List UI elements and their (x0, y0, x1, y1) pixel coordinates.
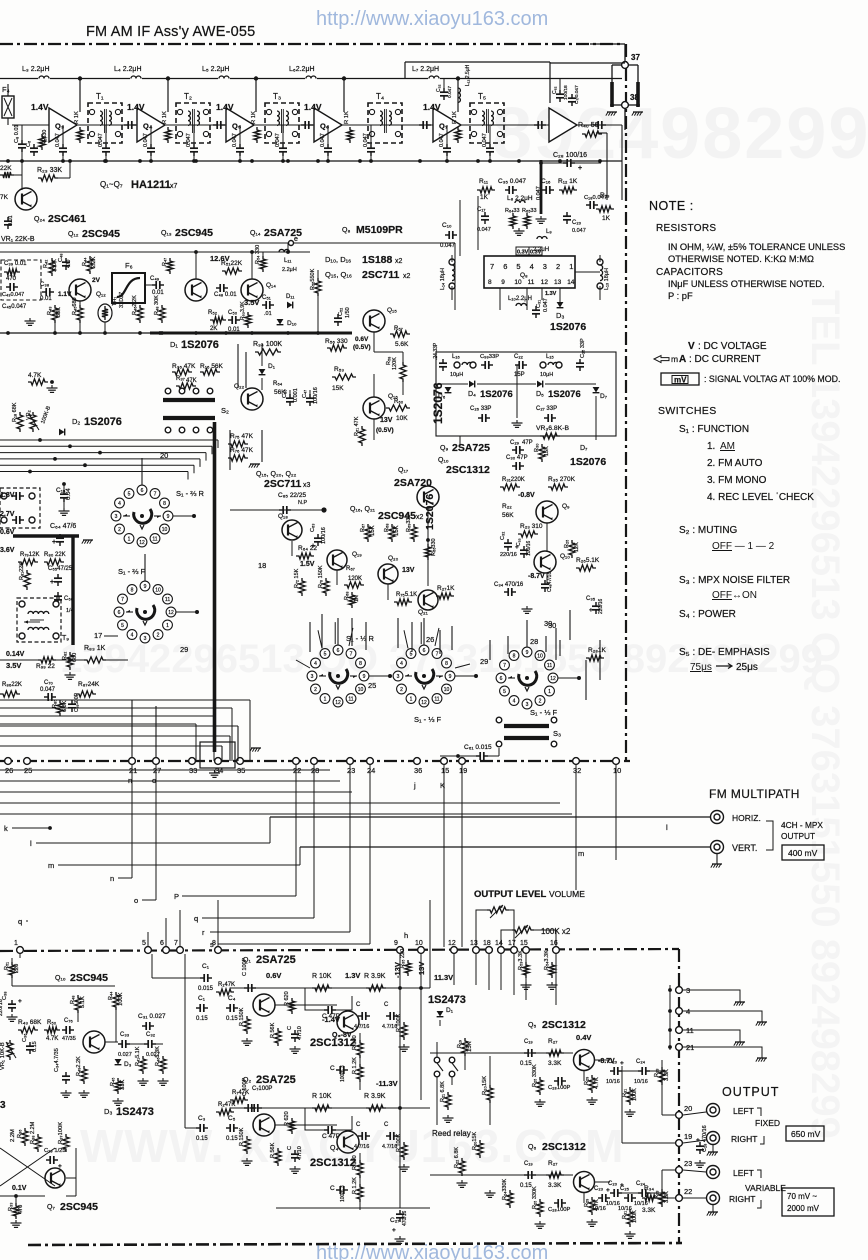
svg-text:470/16: 470/16 (402, 1210, 408, 1226)
terminal 28 (311, 758, 318, 765)
label 21 vert riser (131, 700, 133, 757)
svg-text:C₄₈: C₄₈ (58, 254, 64, 263)
node (398, 986, 402, 990)
svg-text:R 150: R 150 (352, 1035, 358, 1050)
svg-text:10: 10 (444, 687, 450, 693)
resistor R 330K (537, 1077, 543, 1095)
svg-text:R 3.9K: R 3.9K (364, 973, 386, 980)
wire rail (0, 659, 38, 661)
svg-text:Q₁₀: Q₁₀ (55, 975, 66, 982)
svg-text:Q₂₁: Q₂₁ (418, 609, 429, 616)
resistor R33 470 (13, 1203, 19, 1219)
resistor R30 15K (539, 444, 545, 462)
ceramic filter box (0, 488, 40, 528)
svg-text:R₁₂ 1K: R₁₂ 1K (558, 178, 578, 185)
svg-text:11: 11 (348, 697, 353, 703)
node (456, 754, 460, 758)
wire top LC rail (0, 78, 622, 80)
wire 38 joins (612, 104, 622, 106)
svg-text:0.3V: 0.3V (530, 250, 542, 256)
terminal 13 (473, 947, 480, 954)
svg-text:0.047: 0.047 (363, 133, 369, 147)
ground (403, 1044, 405, 1047)
svg-text:D₁: D₁ (268, 363, 276, 370)
svg-text:100K-B: 100K-B (40, 405, 52, 425)
transistor Q14 (241, 279, 263, 301)
svg-text:3.5V: 3.5V (244, 298, 259, 307)
transistor Q22 (241, 388, 263, 410)
terminal 4 (676, 1008, 683, 1015)
svg-text:C₃₃: C₃₃ (120, 1032, 130, 1038)
svg-text:R₄₀ 56: R₄₀ 56 (578, 122, 599, 129)
wire o (155, 765, 157, 900)
svg-text:C₇₇0.047: C₇₇0.047 (574, 85, 580, 104)
svg-text:0.047: 0.047 (536, 186, 542, 200)
svg-text:q: q (18, 917, 22, 926)
svg-text:Q₉: Q₉ (562, 503, 570, 510)
wire box top (405, 61, 550, 63)
contact (193, 427, 199, 433)
svg-text:0.01: 0.01 (40, 296, 52, 302)
svg-text:R₂₆5.1K: R₂₆5.1K (576, 557, 600, 564)
note box (454, 243, 456, 310)
svg-text:F₆: F₆ (125, 261, 133, 270)
svg-text:R₁₈ 68K: R₁₈ 68K (12, 402, 18, 422)
svg-text:2000 mV: 2000 mV (787, 1204, 820, 1213)
svg-text:R₄₈ 30K: R₄₈ 30K (154, 295, 160, 315)
svg-text:-1.4V: -1.4V (322, 1015, 340, 1024)
svg-text:D₇: D₇ (600, 393, 607, 400)
terminal 7 (177, 947, 184, 954)
svg-text:100/16: 100/16 (313, 387, 319, 404)
contact (19, 633, 25, 639)
wire bus right bottom (453, 954, 455, 985)
svg-text:100/6.3: 100/6.3 (340, 1065, 346, 1082)
jack VERT (711, 841, 724, 854)
svg-text:1: 1 (410, 697, 413, 703)
svg-text:R 100K: R 100K (396, 1133, 402, 1152)
terminal 3 (676, 987, 683, 994)
svg-text:R₂₃ 33K: R₂₃ 33K (37, 167, 62, 174)
wire (239, 125, 241, 144)
svg-text:13V: 13V (402, 567, 415, 574)
wire h down (429, 947, 431, 988)
wire 17 (104, 635, 118, 637)
svg-text:L₄ 2.2μH: L₄ 2.2μH (114, 66, 142, 73)
svg-text:19: 19 (684, 1132, 692, 1141)
svg-text:FM AM IF Ass'y AWE-055: FM AM IF Ass'y AWE-055 (86, 24, 255, 40)
svg-text:0.15: 0.15 (226, 1016, 238, 1022)
terminal 21 (676, 1044, 683, 1051)
svg-text:C₄₈ 0.01: C₄₈ 0.01 (214, 292, 237, 298)
resistor 47K top (28, 379, 48, 385)
terminal 22 (293, 758, 300, 765)
svg-text:20: 20 (684, 1104, 692, 1113)
svg-text:R₅₀: R₅₀ (47, 1020, 57, 1026)
resistor R13 1K (596, 206, 614, 212)
resistor R57 5.6K (390, 331, 410, 337)
terminal 26 (5, 758, 12, 765)
resistor R55 550K (315, 278, 321, 296)
svg-text:0.015: 0.015 (198, 986, 214, 992)
svg-text:VERT.: VERT. (732, 843, 757, 853)
svg-text:26: 26 (426, 635, 434, 644)
svg-text:LEFT: LEFT (733, 1168, 754, 1178)
resistor R99 22 (38, 657, 56, 663)
svg-text:A: A (679, 354, 686, 365)
svg-text:(0.5V): (0.5V) (376, 427, 394, 434)
svg-text:10: 10 (162, 527, 168, 533)
svg-text:R 150: R 150 (352, 1155, 358, 1170)
contact (53, 633, 59, 639)
svg-text:3: 3 (526, 702, 529, 708)
ground (526, 606, 528, 609)
svg-text:9: 9 (144, 584, 147, 590)
svg-text:11: 11 (165, 597, 170, 603)
svg-text:10: 10 (613, 766, 621, 775)
svg-text:100K: 100K (632, 1088, 638, 1101)
svg-text:10/16: 10/16 (618, 1206, 632, 1212)
resistor R 150 (357, 1040, 363, 1058)
svg-text:100K: 100K (632, 1210, 638, 1223)
wire vertical 9 (399, 954, 401, 1208)
svg-text:VR₂: VR₂ (26, 410, 32, 420)
svg-text:R₁47K: R₁47K (218, 982, 235, 988)
board border bottom (28, 1243, 682, 1245)
svg-text:1.4V: 1.4V (304, 102, 322, 112)
svg-text:RIGHT: RIGHT (729, 1194, 755, 1204)
svg-text:R 1K: R 1K (344, 111, 350, 124)
svg-text:R₂47K: R₂47K (218, 1102, 235, 1108)
resistor R56 330 (327, 345, 347, 351)
coil T9 a (28, 611, 49, 614)
svg-text:29: 29 (480, 657, 488, 666)
node top rail (166, 76, 170, 80)
svg-text:4.7K: 4.7K (28, 372, 42, 379)
board border terminal row 1 (0, 760, 630, 762)
svg-text:C₁: C₁ (202, 963, 210, 970)
wire (446, 125, 448, 144)
terminal 11 (676, 1027, 683, 1034)
resistor R65 33 (524, 213, 530, 229)
svg-text:R₈₃ 1K: R₈₃ 1K (84, 645, 106, 652)
svg-text:2: 2 (314, 687, 317, 693)
svg-text:C₃₄ 470/16: C₃₄ 470/16 (494, 582, 524, 588)
capacitor C17 0.047 (484, 212, 486, 216)
capacitor filter (12, 495, 16, 497)
svg-text:100/16: 100/16 (321, 527, 327, 544)
svg-text:47P: 47P (522, 440, 533, 446)
wire 10 down (615, 765, 617, 860)
terminal 6 (163, 947, 170, 954)
jack right fixed (707, 1132, 720, 1145)
loop wire (305, 1108, 324, 1130)
svg-text:12: 12 (448, 940, 456, 947)
resistor R22b 6.8K (459, 1158, 465, 1176)
svg-text:C₂₈ 470/16: C₂₈ 470/16 (702, 1125, 708, 1152)
svg-text:38: 38 (630, 93, 639, 102)
svg-text:0.15: 0.15 (520, 1061, 532, 1067)
svg-text:R 1K: R 1K (251, 111, 257, 124)
wire n (131, 765, 133, 878)
inductor L12 2.5uH (458, 88, 460, 102)
svg-text:R₈₀ 22K: R₈₀ 22K (44, 552, 66, 558)
svg-text:17: 17 (94, 631, 102, 640)
svg-text:o: o (134, 896, 138, 905)
ground (83, 1090, 85, 1093)
node (53, 331, 57, 335)
capacitor CP3 (105, 144, 107, 148)
wire (596, 132, 607, 134)
resistor R9 1K (347, 127, 353, 143)
svg-text:1: 1 (324, 697, 327, 703)
svg-text:R 56K: R 56K (270, 1022, 276, 1038)
svg-text:2SC945: 2SC945 (70, 972, 108, 984)
svg-text:12: 12 (541, 279, 549, 286)
capacitor coupling (594, 124, 598, 126)
svg-text:1.8V: 1.8V (0, 492, 15, 499)
resistor R 3.3K out (659, 1067, 665, 1085)
svg-text:C₃₅ 0.047: C₃₅ 0.047 (498, 178, 526, 185)
svg-text:9: 9 (449, 674, 452, 680)
svg-text:: SIGNAL VOLTAG AT 100% MOD.: : SIGNAL VOLTAG AT 100% MOD. (704, 374, 840, 384)
terminal 37 (622, 62, 629, 69)
svg-text:23: 23 (347, 766, 355, 775)
terminal 17 (511, 947, 518, 954)
resistor R52 2K (210, 317, 226, 323)
resistor R40 56 (582, 131, 602, 137)
box 650mV (786, 1126, 824, 1141)
svg-text:Q₁₈: Q₁₈ (278, 513, 288, 520)
svg-text:x2: x2 (403, 273, 411, 280)
resistor R46 2.2K (137, 305, 143, 323)
transistor Q13 (185, 279, 207, 301)
capacitor C52 1/50 (337, 314, 339, 318)
svg-text:5.6K: 5.6K (395, 341, 409, 348)
svg-text:Q₂₂: Q₂₂ (234, 383, 245, 390)
capacitor C39 0.01 block (1, 260, 41, 300)
svg-text:C₃₈: C₃₈ (40, 282, 50, 288)
ground (591, 1219, 593, 1222)
resistor R 100K (401, 1022, 407, 1040)
capacitor C6 (33, 144, 35, 148)
terminal 1 (17, 947, 24, 954)
svg-text:1: 1 (569, 262, 573, 271)
wire (575, 271, 600, 273)
rotary switch S1-2/3F (137, 605, 155, 619)
wire stage (275, 1004, 337, 1006)
arrow T9 (24, 621, 40, 623)
svg-text:0.047: 0.047 (143, 133, 149, 147)
svg-text:: DC VOLTAGE: : DC VOLTAGE (698, 341, 767, 352)
resistor R68 15K (389, 524, 395, 542)
svg-text:R₃₁: R₃₁ (622, 1089, 628, 1097)
svg-text:47/10: 47/10 (297, 1026, 303, 1040)
svg-text:470: 470 (18, 1205, 24, 1214)
svg-text:T₃: T₃ (273, 92, 281, 101)
svg-text:R 1.2K: R 1.2K (352, 1057, 358, 1074)
separator line (0, 242, 455, 244)
transistor Q5 (574, 1050, 595, 1071)
svg-text:11: 11 (547, 663, 552, 669)
svg-text:R 620: R 620 (284, 991, 290, 1006)
op-amp Q&#8323; HA1211 stage (49, 108, 77, 142)
ground (518, 228, 520, 231)
svg-text:x2: x2 (395, 258, 403, 265)
svg-text:R₃₁220K: R₃₁220K (502, 477, 525, 483)
resistor R26b 15K (477, 1140, 483, 1158)
capacitor C19 0.04 (63, 490, 65, 494)
svg-text:2.2μH: 2.2μH (282, 267, 297, 273)
wire lower rail (0, 160, 622, 162)
svg-text:1.5V: 1.5V (300, 561, 315, 568)
svg-text:12: 12 (139, 540, 145, 546)
svg-text:100/16: 100/16 (526, 540, 532, 556)
wire (21, 125, 23, 140)
transistor Q7b (45, 1168, 65, 1188)
ground (246, 1038, 248, 1041)
pot volume 2 (512, 927, 534, 933)
svg-text:C₅₀: C₅₀ (228, 310, 238, 316)
svg-text:R₄₁5.1K: R₄₁5.1K (135, 1046, 141, 1066)
svg-text:6: 6 (141, 488, 144, 494)
svg-text:L₁₁: L₁₁ (284, 258, 291, 264)
terminal 35 (237, 758, 244, 765)
capacitor C63 100/16 (317, 534, 319, 538)
svg-text:Reed relay: Reed relay (432, 1129, 471, 1138)
svg-text:10μH: 10μH (450, 372, 463, 378)
ground 35 (251, 747, 261, 749)
inductor L13 18uH (597, 259, 603, 265)
terminal 19 (459, 758, 466, 765)
transistor Q24 2SC461 (15, 188, 37, 210)
wire Q15 Q16 block (261, 343, 263, 366)
contact (551, 741, 557, 747)
svg-text:15K: 15K (332, 385, 344, 392)
svg-text:47/35: 47/35 (62, 1036, 76, 1042)
svg-text:2SC711: 2SC711 (264, 478, 302, 490)
svg-text:8: 8 (131, 587, 134, 593)
svg-text:Q₁₅, Q₁₆: Q₁₅, Q₁₆ (325, 270, 352, 279)
svg-text:R₅₁22K: R₅₁22K (221, 260, 243, 267)
svg-text:2SC1312: 2SC1312 (310, 1157, 356, 1169)
node top rail (254, 76, 258, 80)
ground 34 (214, 770, 216, 773)
svg-text:0.01: 0.01 (228, 327, 240, 333)
svg-text:7: 7 (154, 491, 157, 497)
svg-text:2SC461: 2SC461 (48, 213, 86, 225)
svg-text:R₄₄: R₄₄ (108, 991, 114, 1000)
wire cluster links (370, 675, 392, 677)
node (14, 1194, 18, 1198)
svg-text:S₃ : MPX NOISE FILTER: S₃ : MPX NOISE FILTER (679, 575, 790, 586)
contact (496, 741, 502, 747)
svg-text:L₇ 2.2μH: L₇ 2.2μH (412, 66, 439, 73)
svg-text:15P: 15P (514, 372, 525, 378)
diode D3b (115, 1059, 122, 1065)
svg-text:2: 2 (400, 687, 403, 693)
svg-text:x3: x3 (303, 482, 311, 489)
svg-text:R₆₉330: R₆₉330 (406, 514, 412, 532)
svg-text:R₅₄ 330: R₅₄ 330 (255, 245, 261, 264)
svg-text:24: 24 (367, 766, 375, 775)
wire long 5 (0, 813, 572, 815)
svg-text:C₂₇ 33P: C₂₇ 33P (536, 406, 557, 412)
svg-text:Q₆: Q₆ (528, 1144, 536, 1151)
svg-text:8: 8 (445, 661, 448, 667)
svg-text:D₅: D₅ (536, 391, 544, 398)
svg-text:5: 5 (128, 491, 131, 497)
svg-text:R₆₀: R₆₀ (394, 399, 404, 405)
svg-text:j: j (413, 781, 416, 790)
svg-text:120K: 120K (392, 357, 398, 370)
wire out stage (536, 1174, 546, 1176)
terminal 14 (498, 947, 505, 954)
resistor R 4.7K (589, 1075, 595, 1093)
node (61, 159, 65, 163)
svg-text:(0.5V): (0.5V) (353, 344, 371, 351)
resistor R64 33 (510, 213, 516, 229)
svg-text:Q₃-8V: Q₃-8V (332, 1032, 352, 1039)
resistor R44b 100K (113, 992, 119, 1010)
rotary switch S1-3/3R (330, 669, 348, 683)
svg-text:C₆₆: C₆₆ (64, 596, 74, 602)
svg-text:C₁₉: C₁₉ (524, 1039, 533, 1045)
svg-text:CAPACITORS: CAPACITORS (656, 267, 723, 278)
node bus y440 (38, 438, 42, 442)
svg-text:D₃: D₃ (556, 311, 564, 320)
svg-text:3.3K: 3.3K (664, 1191, 670, 1203)
svg-text:L₁₆: L₁₆ (452, 354, 460, 360)
svg-text:13: 13 (470, 940, 478, 947)
svg-text:R₃₃: R₃₃ (654, 1069, 660, 1077)
thick bar right (636, 82, 640, 107)
node e bus (321, 507, 326, 512)
svg-text:R₆₅33: R₆₅33 (522, 208, 537, 214)
pot VR3 (540, 433, 560, 439)
wire r (349, 765, 351, 932)
svg-text:VARIABLE: VARIABLE (745, 1183, 786, 1193)
svg-text:1S2076: 1S2076 (431, 382, 445, 424)
terminal 15 (523, 947, 530, 954)
svg-text:C₂₃: C₂₃ (594, 1186, 604, 1192)
diode D2 (59, 429, 65, 436)
svg-text:16: 16 (550, 940, 558, 947)
wire long 2 (0, 780, 340, 782)
svg-text:4CH - MPX: 4CH - MPX (781, 820, 823, 830)
svg-text:R₃₈ 2.2M: R₃₈ 2.2M (30, 1121, 36, 1144)
ground (29, 318, 31, 321)
bracket (766, 821, 773, 850)
capacitor coupling (213, 124, 217, 126)
svg-text:56K: 56K (502, 512, 514, 519)
capacitor C10 0.047 (327, 144, 329, 148)
node mid rail (158, 331, 162, 335)
svg-text:C₉₉33P: C₉₉33P (480, 354, 499, 360)
capacitor C64 (59, 534, 61, 538)
svg-text:D₃: D₃ (124, 1061, 132, 1068)
wire stage out1 (430, 1052, 573, 1054)
svg-text:D₄: D₄ (468, 391, 476, 398)
svg-text:R₃₀: R₃₀ (534, 444, 540, 453)
svg-text:R 1K: R 1K (452, 111, 458, 124)
node (6, 331, 10, 335)
svg-text:C₄₈47/16: C₄₈47/16 (547, 572, 553, 592)
wire (436, 383, 468, 385)
svg-text:Q₁₄: Q₁₄ (250, 230, 261, 237)
svg-text:1.: 1. (707, 441, 715, 452)
svg-text:15K: 15K (544, 446, 550, 456)
